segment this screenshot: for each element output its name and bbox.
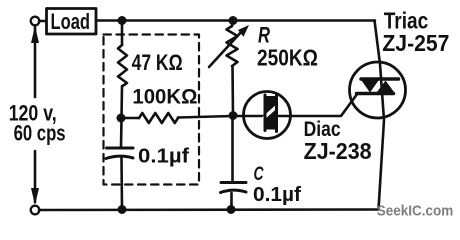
ac source lead with down arrow xyxy=(34,151,37,202)
ac source terminal bottom xyxy=(31,206,40,215)
wire: diac gate to triac xyxy=(291,94,358,117)
resistor 47K zigzag xyxy=(118,45,127,86)
resistor 100K zigzag xyxy=(139,113,178,123)
triac bottom bar xyxy=(357,92,394,96)
junction node A xyxy=(117,114,126,123)
capacitor 0.1uf bottom plate xyxy=(106,156,133,158)
triac circle xyxy=(350,62,406,118)
wire: node B through diac xyxy=(233,115,291,118)
junction: top rail / 47K xyxy=(118,16,127,25)
ac source up arrowhead xyxy=(31,26,39,43)
svg-text:SeekIC.com: SeekIC.com xyxy=(377,203,454,220)
wire: pot R to node B xyxy=(231,66,234,116)
svg-text:0.1µf: 0.1µf xyxy=(138,146,189,168)
svg-text:100KΩ: 100KΩ xyxy=(132,85,197,109)
wire: capacitor to bottom rail xyxy=(120,158,123,210)
capacitor C bottom plate xyxy=(221,190,247,192)
diac circle xyxy=(244,92,291,139)
potentiometer R arrow xyxy=(209,30,243,67)
diac left bar xyxy=(264,95,267,131)
svg-text:0.1µf: 0.1µf xyxy=(253,184,301,206)
triac right triangle xyxy=(377,81,394,93)
svg-text:47 KΩ: 47 KΩ xyxy=(132,50,183,75)
svg-text:ZJ-238: ZJ-238 xyxy=(304,138,372,164)
junction: top rail / pot R xyxy=(229,16,238,25)
potentiometer R stem xyxy=(232,21,233,27)
junction: bottom rail / capacitor xyxy=(118,205,127,214)
diac symbol gap xyxy=(262,104,280,120)
ac source terminal top xyxy=(31,17,40,26)
triac left triangle xyxy=(362,81,379,93)
diac right bar xyxy=(275,94,278,132)
capacitor 0.1uf top plate xyxy=(107,147,134,150)
wire: triac vertical (anode to cathode) xyxy=(375,21,385,210)
svg-text:60 cps: 60 cps xyxy=(14,121,66,146)
diac symbol body xyxy=(266,96,277,130)
wire: node A down to capacitor xyxy=(120,118,123,148)
potentiometer R arrowhead xyxy=(238,25,249,37)
wire: 47K to node A xyxy=(120,86,123,118)
svg-text:Load: Load xyxy=(51,9,91,34)
load box xyxy=(47,9,97,35)
potentiometer R zigzag xyxy=(227,26,238,66)
wire: 100K to node B xyxy=(178,116,233,118)
wire: node B down to capacitor C xyxy=(231,116,234,182)
triac top bar xyxy=(361,77,399,81)
svg-text:250KΩ: 250KΩ xyxy=(257,45,318,71)
wire: top rail (load to triac corner) xyxy=(96,19,375,22)
junction node B xyxy=(229,111,238,120)
junction: bottom rail / capacitor C xyxy=(227,205,236,214)
resistor 100K lead left xyxy=(121,117,139,120)
bottom rail wire xyxy=(39,208,379,211)
wire: top rail into 47K xyxy=(121,21,124,46)
ac source lead with up arrow xyxy=(34,27,37,97)
wire: capacitor C to bottom rail xyxy=(230,193,233,210)
ac source down arrowhead xyxy=(31,188,39,205)
wire: top terminal to load xyxy=(39,20,46,23)
svg-text:ZJ-257: ZJ-257 xyxy=(382,30,449,56)
svg-text:C: C xyxy=(254,164,264,185)
phase shift network dashed box xyxy=(104,35,200,185)
capacitor C top plate xyxy=(221,181,246,184)
